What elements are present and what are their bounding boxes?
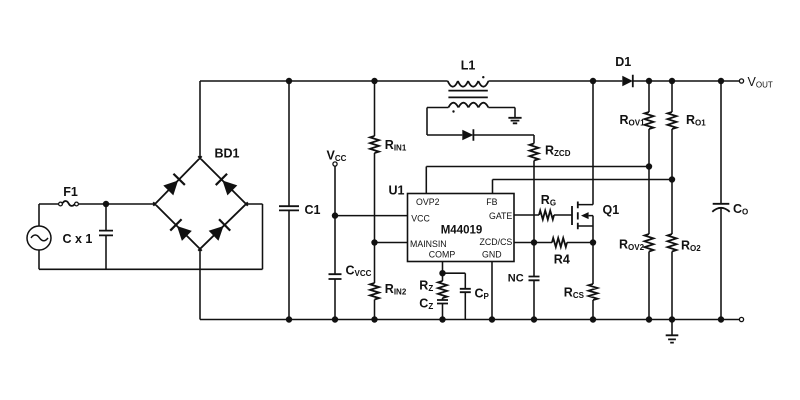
svg-text:GND: GND: [482, 250, 502, 260]
svg-text:BD1: BD1: [214, 146, 239, 160]
svg-text:MAINSIN: MAINSIN: [410, 239, 447, 249]
svg-text:COMP: COMP: [429, 250, 456, 260]
svg-text:NC: NC: [508, 273, 524, 285]
svg-text:FB: FB: [486, 197, 497, 207]
svg-text:OVP2: OVP2: [416, 197, 440, 207]
svg-text:F1: F1: [63, 185, 78, 199]
svg-text:C x 1: C x 1: [63, 232, 93, 246]
svg-text:VCC: VCC: [411, 213, 430, 223]
svg-text:D1: D1: [615, 55, 631, 69]
svg-text:C1: C1: [305, 203, 321, 217]
svg-text:GATE: GATE: [489, 211, 512, 221]
svg-text:U1: U1: [389, 184, 405, 198]
svg-text:M44019: M44019: [441, 224, 483, 236]
svg-text:R4: R4: [554, 253, 570, 267]
svg-text:L1: L1: [461, 59, 476, 73]
svg-text:ZCD/CS: ZCD/CS: [480, 237, 513, 247]
svg-text:Q1: Q1: [603, 203, 620, 217]
